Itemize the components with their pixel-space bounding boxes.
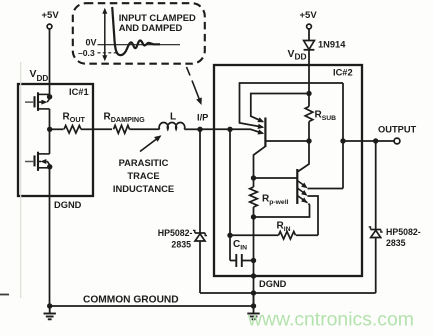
svg-text:HP5082-: HP5082- — [386, 227, 421, 237]
transistor upper PMOS (IC#1) — [25, 92, 50, 111]
svg-text:VDD: VDD — [288, 49, 307, 61]
wire output to clamp diode — [375, 141, 377, 229]
wire IC#1 ground rail to common ground — [49, 196, 51, 306]
node source-body tie lower — [47, 164, 52, 169]
watermark — [247, 309, 414, 331]
R_DAMPING label — [104, 112, 146, 125]
wire emitter3 to p-well bottom — [254, 204, 310, 218]
R_IN label — [277, 221, 291, 234]
wire NPN base — [254, 177, 298, 179]
IC#2 box — [214, 65, 362, 276]
wire VDD rail inside IC#1 — [49, 109, 51, 129]
wire NPN collector — [298, 141, 309, 172]
svg-text:OUTPUT: OUTPUT — [378, 125, 417, 135]
svg-text:I/P: I/P — [197, 113, 208, 123]
IC#1 box — [18, 84, 93, 196]
resistor R_DAMPING — [93, 125, 160, 133]
wire emitter1 to output node — [308, 188, 344, 190]
resistor R_SUB — [305, 94, 313, 142]
wire drain chain lower — [49, 129, 51, 154]
L label — [170, 112, 176, 123]
node R_IN left — [227, 233, 232, 238]
node DGND box crossing — [251, 273, 256, 278]
node output diode tap — [373, 138, 378, 143]
svg-text:L: L — [170, 112, 176, 123]
wire I/P branch vertical — [229, 129, 231, 235]
node R_OUT junction — [47, 127, 52, 132]
svg-text:DGND: DGND — [54, 200, 82, 210]
diode D1 1N914 — [304, 41, 315, 50]
R_SUB label — [315, 110, 337, 123]
svg-text:HP5082-: HP5082- — [158, 228, 193, 238]
waveform trace input clamped and damped — [112, 7, 160, 55]
node I/P — [197, 127, 202, 132]
ground symbol (left) — [44, 306, 56, 319]
DGND label (IC#2) — [259, 279, 287, 289]
0V axis label — [86, 38, 97, 48]
wire PNP to R_SUB node — [265, 140, 309, 142]
svg-text:0V: 0V — [86, 38, 97, 48]
ground symbol (center) — [247, 306, 259, 319]
waveform vertical range arrow — [102, 8, 107, 61]
svg-text:1N914: 1N914 — [318, 40, 346, 50]
wire output — [343, 140, 394, 142]
IC#2 label — [333, 68, 353, 78]
node R_SUB bottom — [306, 138, 311, 143]
NPN emitter 3 — [297, 196, 307, 204]
resistor R_IN — [230, 232, 318, 240]
-0.3 dashed level line — [98, 52, 120, 54]
OUTPUT label — [378, 125, 417, 135]
COMMON GROUND label — [83, 295, 179, 306]
capacitor C_IN — [230, 235, 254, 267]
node output-emitter junction — [340, 138, 345, 143]
diode D3 HP5082-2835 (output clamp) — [369, 227, 383, 238]
R_p-well label — [262, 194, 289, 207]
node VDD junction — [306, 91, 311, 96]
svg-text:–0.3: –0.3 — [78, 48, 95, 58]
PARASITIC TRACE INDUCTANCE label — [113, 157, 174, 194]
transistor Q2 parasitic NPN bar — [296, 169, 298, 204]
inductor L (parasitic trace inductance) — [159, 123, 200, 130]
wire common ground line — [50, 305, 254, 307]
node p-well bottom — [251, 214, 256, 219]
VDD label (IC#1) — [30, 69, 49, 83]
NPN emitter 1 — [297, 181, 307, 189]
resistor R_OUT — [50, 126, 94, 134]
callout dashed bubble — [73, 3, 205, 64]
svg-text:www.cntronics.com: www.cntronics.com — [247, 309, 414, 331]
node common ground left — [47, 303, 52, 308]
svg-text:DGND: DGND — [259, 279, 287, 289]
node I/P branch — [227, 127, 232, 132]
wire I/P to PNP emitter — [230, 129, 264, 134]
svg-text:IC#2: IC#2 — [333, 68, 353, 78]
svg-text:TRACE: TRACE — [127, 170, 159, 181]
INPUT CLAMPED AND DAMPED label — [119, 12, 196, 33]
svg-text:INPUT CLAMPED: INPUT CLAMPED — [119, 12, 196, 23]
wire A vertical to output node — [342, 83, 344, 189]
node p-well top — [251, 175, 256, 180]
OUTPUT terminal — [394, 138, 400, 144]
+5V supply terminal (right) — [300, 10, 318, 29]
edge artifact line — [0, 62, 21, 298]
DGND label (IC#1) — [54, 200, 82, 210]
IC#1 label — [69, 87, 89, 97]
0V axis line — [98, 44, 181, 46]
wire digital ground line — [200, 292, 376, 294]
wire p-well node to DGND — [253, 217, 255, 306]
transistor Q1 parasitic PNP bar — [264, 118, 266, 148]
wire diode to VDD node — [308, 50, 310, 94]
svg-text:AND DAMPED: AND DAMPED — [119, 22, 183, 33]
svg-text:2835: 2835 — [386, 238, 406, 248]
wire output diode to ground line — [375, 238, 377, 293]
wire PNP to p-well node — [254, 146, 266, 178]
HP5082-2835 label (right) — [386, 227, 421, 248]
resistor R_p-well — [250, 178, 258, 217]
wire A output node to PNP emitter — [240, 83, 344, 129]
svg-text:IC#1: IC#1 — [69, 87, 89, 97]
wire input diode to ground line — [199, 241, 201, 293]
1N914 label — [318, 40, 346, 50]
wire NMOS source to box bottom — [49, 166, 51, 196]
C_IN label — [233, 239, 247, 252]
HP5082-2835 label (left) — [158, 228, 193, 250]
node C_IN right — [251, 258, 256, 263]
svg-text:INDUCTANCE: INDUCTANCE — [113, 183, 174, 194]
VDD label (IC#2) — [288, 49, 307, 61]
wire DGND stub — [253, 293, 255, 306]
R_OUT label — [63, 112, 86, 125]
svg-text:2835: 2835 — [171, 240, 191, 250]
diode D2 HP5082-2835 (input clamp) — [193, 129, 207, 241]
+5V supply terminal (left) — [42, 10, 60, 29]
wire B VDD to PNP emitter — [251, 94, 309, 123]
-0.3 level label — [78, 48, 95, 58]
wire +5V to diode — [308, 29, 310, 41]
wire emitter2 to R_IN — [308, 196, 319, 235]
wire I/P into IC#2 — [200, 128, 230, 130]
svg-text:COMMON GROUND: COMMON GROUND — [83, 295, 179, 306]
I/P label — [197, 113, 208, 123]
wire +5V to IC#1 VDD — [49, 29, 51, 95]
annotation arrow to inductor — [140, 135, 162, 151]
svg-text:+5V: +5V — [300, 10, 318, 21]
transistor lower NMOS (IC#1) — [25, 152, 50, 171]
callout arrow to I/P node — [187, 67, 202, 105]
node DGND ground junction — [251, 290, 256, 295]
svg-text:+5V: +5V — [42, 10, 60, 21]
NPN emitter 2 — [297, 188, 307, 196]
node common ground center — [251, 303, 256, 308]
node source-body tie upper — [47, 94, 52, 99]
svg-text:PARASITIC: PARASITIC — [119, 157, 169, 168]
